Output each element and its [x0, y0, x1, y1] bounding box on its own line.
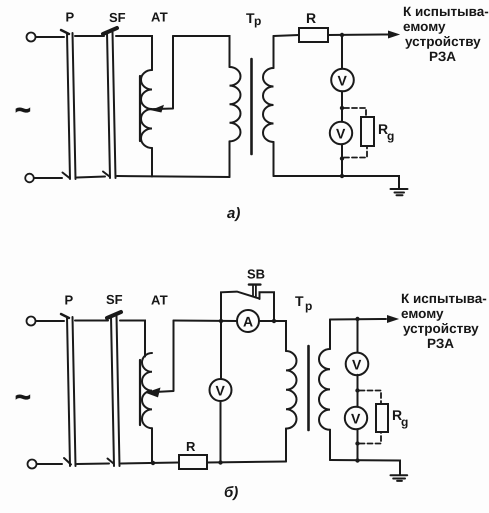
label P — [66, 10, 75, 25]
wire V1 to node — [340, 91, 344, 122]
svg-text:R: R — [186, 439, 196, 454]
resistor Rd (b) — [376, 404, 388, 432]
wire bottom rail P-SF — [77, 177, 105, 178]
label b) — [224, 484, 238, 501]
voltmeter V2 (b) — [345, 407, 367, 429]
pushbutton SB bypass — [221, 285, 274, 321]
wire bottom rail SF to Tp primary — [117, 176, 230, 177]
wire R to arrow with junction — [328, 33, 388, 37]
wire up primary bottom (b) — [285, 429, 287, 462]
transformer Tp primary winding (b) — [286, 351, 297, 429]
svg-text:V: V — [338, 73, 348, 89]
transformer Tp core (b) — [307, 346, 310, 430]
svg-text:g: g — [401, 415, 408, 429]
svg-text:а): а) — [227, 205, 240, 222]
dashed link node to Rd top — [344, 108, 366, 116]
label P (b) — [65, 293, 74, 308]
svg-text:емому: емому — [403, 19, 446, 34]
label AT — [151, 10, 168, 25]
AC source tilde (b) — [15, 382, 31, 412]
wire top rail P-SF (b) — [75, 320, 108, 322]
label Rd (a) — [378, 121, 394, 143]
svg-text:V: V — [352, 356, 362, 372]
svg-text:р: р — [254, 14, 261, 28]
label Rd (b) — [392, 407, 408, 429]
svg-text:РЗА: РЗА — [427, 336, 454, 351]
autotransformer AT winding — [141, 70, 152, 177]
wire V2 to node (b) — [355, 429, 359, 462]
label AT (b) — [151, 293, 168, 308]
svg-text:R: R — [306, 10, 316, 26]
voltmeter V1 (a) — [331, 69, 354, 92]
svg-text:устройству: устройству — [405, 34, 481, 49]
wire top rail SF-AT (b) — [120, 321, 145, 357]
svg-text:Р: Р — [66, 10, 75, 25]
svg-text:б): б) — [224, 484, 238, 501]
wire secondary top rail (b) — [330, 317, 386, 321]
svg-text:V: V — [216, 383, 226, 399]
svg-text:SF: SF — [109, 10, 126, 25]
voltmeter V2 (a) — [330, 122, 352, 144]
output arrow b) — [388, 316, 398, 323]
AT wiper tap arrow — [148, 36, 174, 112]
svg-text:РЗА: РЗА — [429, 49, 456, 64]
svg-text:~: ~ — [15, 95, 31, 125]
label R (b) — [186, 439, 196, 454]
wire secondary bottom rail to ground — [274, 176, 400, 189]
transformer Tp secondary winding — [263, 36, 274, 176]
svg-text:К испытыва-: К испытыва- — [403, 4, 489, 19]
switch P (b) — [61, 314, 76, 466]
label Tp (b) — [295, 293, 312, 313]
ground (a) — [391, 189, 408, 195]
wire top rail AT tap to node (b) — [174, 319, 238, 323]
wire V down to bottom rail (b) — [218, 401, 222, 465]
svg-text:Т: Т — [295, 293, 304, 309]
autotransformer AT core bar (b) — [139, 360, 141, 425]
wire V1 to node (b) — [355, 375, 359, 407]
wire top rail P-SF — [75, 35, 104, 37]
dashed link node to Rd bottom (b) — [360, 432, 382, 444]
voltmeter V (b left) — [210, 379, 232, 401]
transformer Tp secondary winding (b) — [319, 320, 330, 461]
svg-text:А: А — [243, 314, 253, 330]
switch P — [61, 30, 76, 179]
label R — [306, 10, 316, 26]
wire top rail SF-AT — [116, 36, 152, 70]
wire secondary top to R — [274, 35, 300, 36]
wire junction down to V1 (b) — [357, 319, 359, 353]
label a) — [227, 205, 240, 222]
resistor Rd (a) — [361, 117, 374, 146]
svg-text:устройству: устройству — [403, 321, 479, 336]
terminal bottom-left (b) — [28, 460, 63, 469]
label SF (b) — [106, 292, 123, 307]
svg-text:V: V — [351, 411, 361, 427]
wire secondary bottom rail to ground (b) — [330, 460, 400, 475]
wire V2 to node — [340, 144, 344, 178]
terminal top-left (b) — [27, 317, 65, 326]
resistor R (b) — [179, 455, 207, 469]
transformer Tp primary winding — [230, 67, 241, 177]
svg-text:~: ~ — [15, 382, 31, 412]
text To tested device a) — [403, 4, 489, 64]
autotransformer AT winding (b) — [142, 353, 152, 463]
ammeter A — [237, 310, 259, 332]
svg-text:емому: емому — [401, 306, 444, 321]
wire A to Tp primary (b) — [259, 319, 286, 351]
label SB — [247, 267, 265, 282]
output arrow a) — [389, 31, 399, 38]
label SF — [109, 10, 126, 25]
ground (b) — [391, 475, 408, 481]
wire node down to V (b) — [220, 321, 222, 379]
AT wiper tap arrow (b) — [148, 321, 174, 397]
svg-text:К испытыва-: К испытыва- — [401, 291, 487, 306]
dashed link node to Rd top (b) — [360, 391, 382, 404]
voltmeter V1 (b) — [346, 353, 369, 376]
wire junction down to V1 — [341, 35, 343, 69]
svg-text:Р: Р — [65, 293, 74, 308]
AC source tilde — [15, 95, 31, 125]
svg-text:SB: SB — [247, 267, 265, 282]
transformer Tp core — [250, 59, 253, 154]
svg-text:АТ: АТ — [151, 293, 168, 308]
resistor R — [299, 28, 328, 42]
svg-text:V: V — [336, 126, 346, 142]
wire R to Tp primary bottom (b) — [207, 462, 286, 463]
wire bottom rail SF to R (b) — [121, 461, 179, 465]
svg-text:АТ: АТ — [151, 10, 168, 25]
breaker SF — [103, 28, 117, 178]
svg-text:g: g — [387, 129, 394, 143]
terminal top-left — [27, 33, 65, 42]
wire bottom rail P-SF (b) — [77, 463, 109, 466]
text To tested device b) — [401, 291, 487, 351]
svg-text:р: р — [305, 299, 312, 313]
terminal bottom-left — [25, 174, 62, 183]
label Tp — [246, 10, 261, 28]
autotransformer AT core bar — [139, 76, 141, 141]
wire top rail AT tap to Tp primary — [173, 36, 230, 67]
dashed link node to Rd bottom — [344, 147, 367, 158]
svg-text:SF: SF — [106, 292, 123, 307]
breaker SF (b) — [107, 312, 121, 466]
